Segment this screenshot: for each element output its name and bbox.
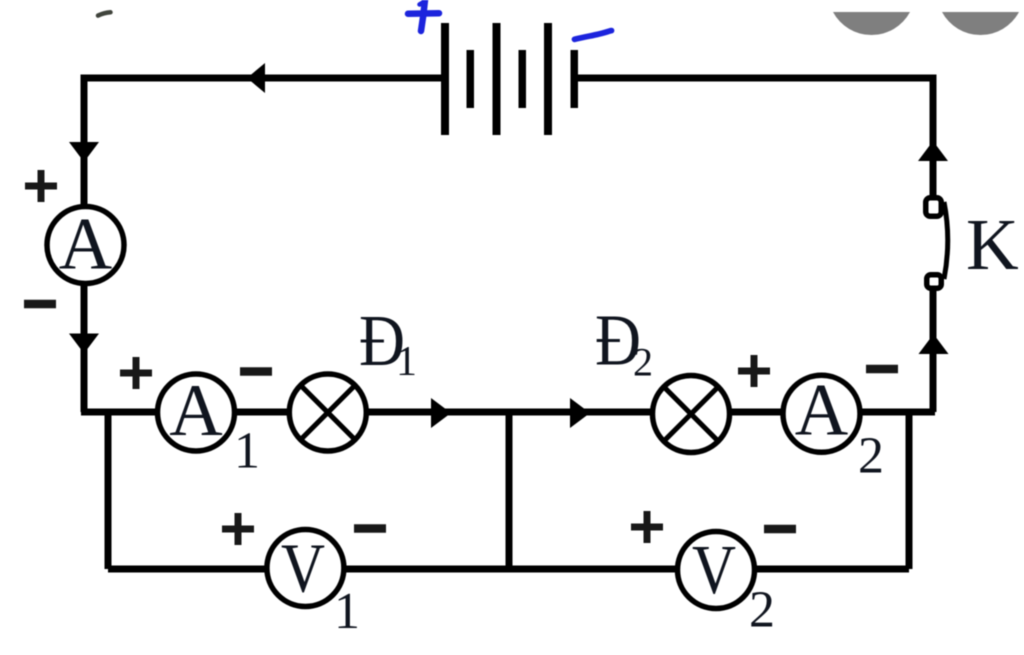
svg-text:A: A (169, 370, 222, 452)
svg-text:A: A (59, 204, 112, 286)
svg-text:A: A (795, 370, 848, 452)
svg-text:K: K (966, 204, 1019, 285)
svg-text:2: 2 (858, 428, 884, 485)
svg-text:1: 1 (234, 423, 260, 480)
svg-text:V: V (692, 532, 736, 609)
svg-text:1: 1 (396, 339, 417, 385)
svg-text:1: 1 (334, 583, 360, 640)
svg-text:V: V (281, 531, 325, 608)
svg-text:2: 2 (633, 340, 653, 385)
svg-text:2: 2 (749, 582, 775, 639)
